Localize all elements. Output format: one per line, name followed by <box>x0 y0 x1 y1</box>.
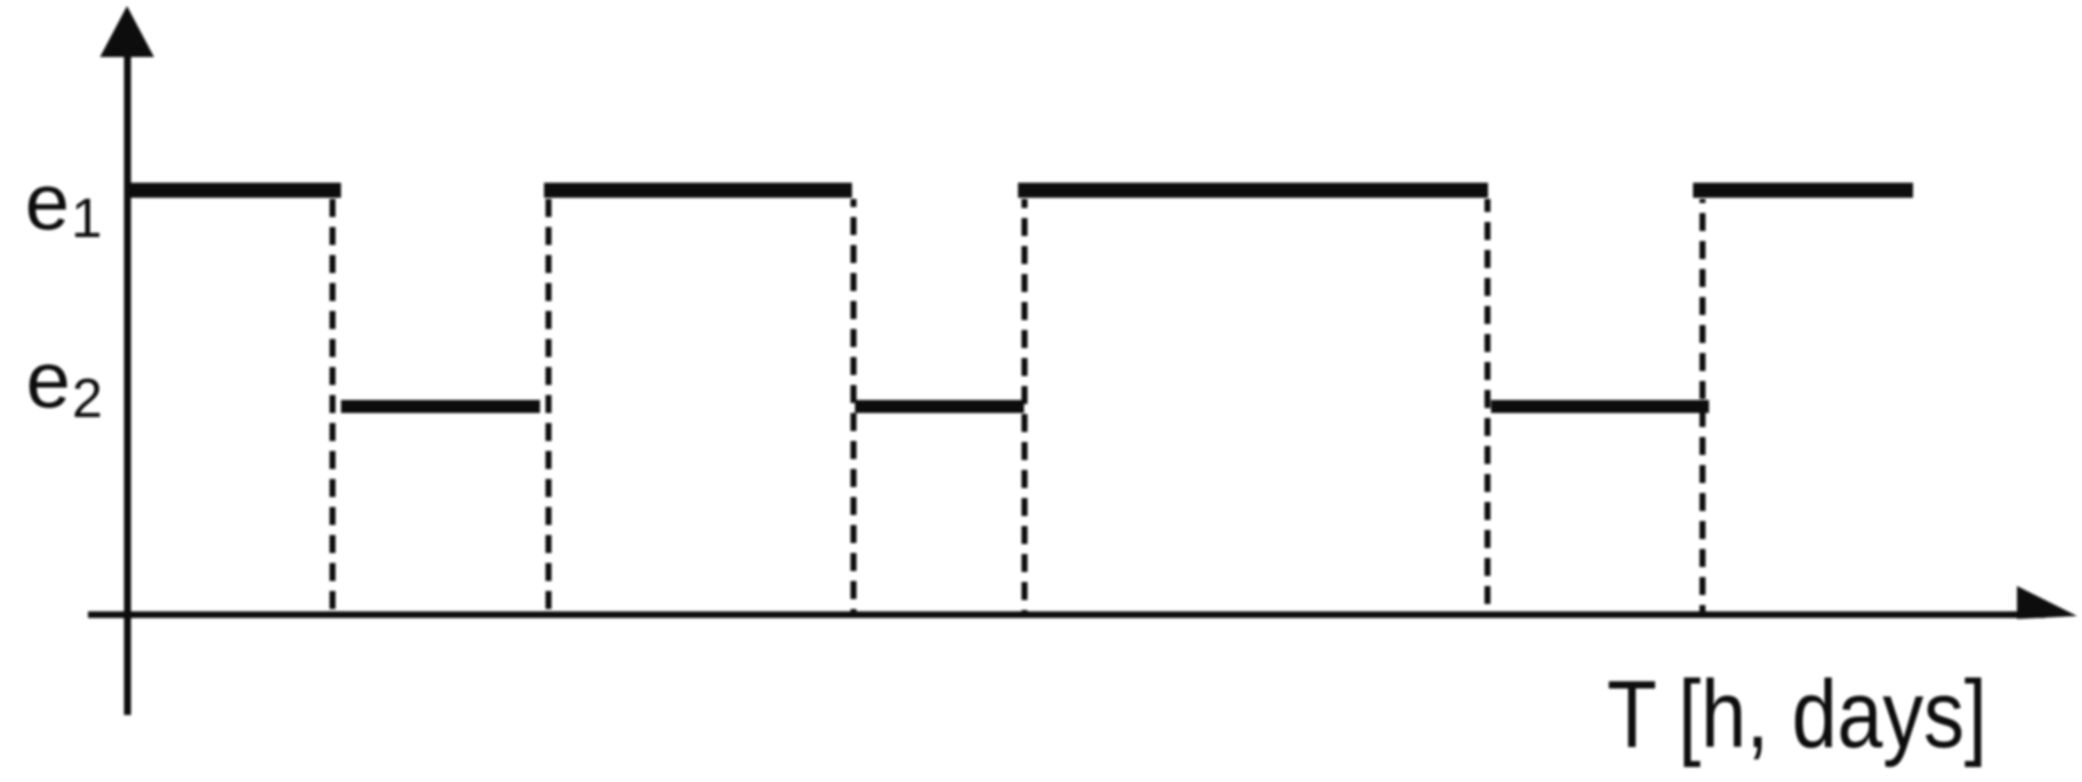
x-axis line <box>88 611 2045 618</box>
dashed drop line 6 <box>1700 199 1706 613</box>
dashed drop line 2 <box>546 199 552 613</box>
svg-text:T [h, days]: T [h, days] <box>1607 661 1987 768</box>
svg-text:e: e <box>25 157 70 246</box>
x-axis arrowhead <box>2017 586 2077 619</box>
y-axis arrowhead <box>100 6 154 57</box>
y-axis line <box>124 50 131 715</box>
dashed drop line 1 <box>330 199 336 613</box>
svg-text:e: e <box>26 335 71 424</box>
svg-text:2: 2 <box>72 367 103 429</box>
e1 level segment 1 <box>124 183 341 198</box>
dashed drop line 5 <box>1485 199 1491 613</box>
e1 level segment 2 <box>544 183 852 198</box>
e2 level segment 1 <box>341 400 540 413</box>
dashed drop line 4 <box>1022 199 1028 613</box>
e2 level segment 2 <box>855 400 1024 413</box>
e1 level segment 4 <box>1693 183 1913 198</box>
dashed drop line 3 <box>851 199 857 613</box>
e2 level segment 3 <box>1491 400 1709 413</box>
e1 level segment 3 <box>1018 183 1488 198</box>
svg-text:1: 1 <box>71 186 102 249</box>
